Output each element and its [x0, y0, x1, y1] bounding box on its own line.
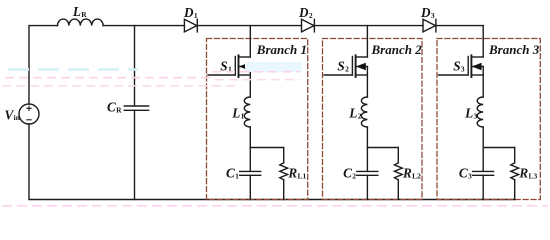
- svg-text:3: 3: [461, 64, 465, 73]
- svg-text:L: L: [348, 105, 357, 120]
- svg-text:L2: L2: [412, 171, 421, 180]
- svg-text:D: D: [298, 5, 309, 20]
- svg-text:C: C: [343, 165, 352, 180]
- svg-text:C: C: [459, 165, 468, 180]
- svg-text:D: D: [183, 5, 194, 20]
- svg-text:1: 1: [235, 171, 239, 180]
- svg-text:3: 3: [474, 111, 478, 120]
- svg-text:2: 2: [345, 64, 349, 73]
- svg-text:R: R: [116, 105, 122, 114]
- svg-text:Branch 3: Branch 3: [488, 42, 540, 57]
- svg-text:in: in: [14, 113, 21, 122]
- svg-text:Branch 2: Branch 2: [371, 42, 423, 57]
- svg-text:1: 1: [241, 111, 245, 120]
- svg-text:L: L: [231, 105, 240, 120]
- svg-text:1: 1: [194, 11, 198, 20]
- svg-text:D: D: [420, 5, 431, 20]
- svg-text:2: 2: [358, 111, 362, 120]
- svg-text:R: R: [402, 165, 412, 180]
- svg-text:R: R: [287, 165, 297, 180]
- svg-text:2: 2: [309, 11, 313, 20]
- svg-text:L1: L1: [298, 171, 307, 180]
- svg-text:S: S: [337, 58, 344, 73]
- svg-text:C: C: [226, 165, 235, 180]
- svg-text:2: 2: [352, 171, 356, 180]
- svg-text:R: R: [518, 165, 528, 180]
- svg-text:Branch 1: Branch 1: [256, 42, 307, 57]
- svg-text:L: L: [464, 105, 473, 120]
- svg-text:3: 3: [431, 11, 435, 20]
- svg-text:S: S: [453, 58, 460, 73]
- svg-text:R: R: [81, 10, 87, 19]
- svg-text:3: 3: [468, 171, 472, 180]
- svg-text:L: L: [72, 4, 81, 19]
- svg-text:L3: L3: [529, 171, 538, 180]
- svg-text:C: C: [107, 99, 116, 114]
